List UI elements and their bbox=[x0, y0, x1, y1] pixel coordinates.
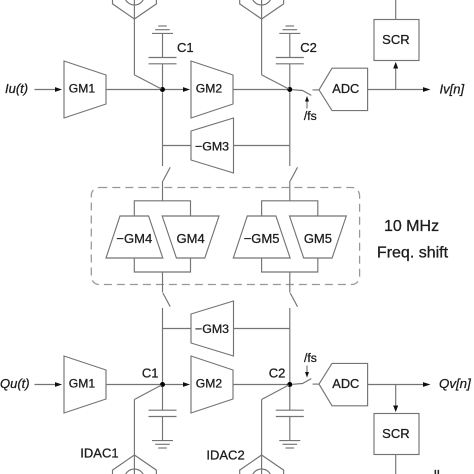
wire node C1 to GM2 with arrow (bottom) bbox=[165, 382, 190, 387]
wire node C1 down (top) bbox=[162, 92, 164, 166]
wire GM5 bar down to switch bbox=[289, 272, 291, 293]
wire GM2 output to node C2 (bottom) bbox=[233, 384, 288, 386]
ADC (bottom) bbox=[319, 363, 368, 405]
wire GM1 output to node C1 (top) bbox=[106, 89, 160, 91]
wire output to SCR with down arrow (bottom) bbox=[393, 385, 398, 413]
svg-text:−GM4: −GM4 bbox=[116, 231, 152, 246]
watermark fragment bottom right bbox=[435, 470, 440, 474]
wire switch to freq-shift box (top right) bbox=[289, 181, 291, 201]
IDAC current source symbol (top left, clipped) bbox=[113, 0, 157, 19]
feedback transconductor -GM3 (bottom) bbox=[191, 301, 234, 356]
svg-text:−GM3: −GM3 bbox=[195, 322, 229, 336]
transconductor GM2 (bottom) bbox=[191, 356, 233, 413]
SCR block (top) bbox=[374, 20, 419, 61]
wire GM2 output to node C2 (top) bbox=[233, 89, 288, 91]
ground above C2 (inverted) bbox=[279, 26, 300, 33]
wire input arrow to GM1 (top) bbox=[35, 87, 63, 92]
wire -GM3 input from node C2 line (top) bbox=[234, 145, 290, 147]
switch blade C2 branch (top) bbox=[290, 167, 297, 181]
IDAC2 current source symbol (bottom, clipped) bbox=[240, 455, 284, 474]
transconductor GM1 (bottom) bbox=[64, 356, 106, 413]
wire bar to GM5 pair inputs (top) bbox=[262, 201, 318, 216]
svg-text:Freq. shift: Freq. shift bbox=[377, 245, 449, 262]
ground above C1 (inverted) bbox=[152, 26, 173, 33]
wire switch down to node C2 (bottom) bbox=[289, 308, 291, 382]
svg-text:C1: C1 bbox=[177, 40, 194, 55]
svg-text:ADC: ADC bbox=[332, 81, 359, 96]
wire GM5 pair outputs to bar (bottom) bbox=[262, 258, 318, 272]
wire switch down to node C1 (bottom) bbox=[162, 308, 164, 382]
transconductor GM5 bbox=[290, 216, 347, 258]
feedback transconductor -GM3 (top) bbox=[191, 118, 234, 173]
svg-text:GM2: GM2 bbox=[196, 377, 223, 391]
ground below C2 (bottom) bbox=[279, 441, 300, 448]
wire -GM3 output to node C1 line (bottom) bbox=[163, 328, 192, 330]
ADC (top) bbox=[319, 68, 368, 110]
switch /fs (bottom) bbox=[293, 379, 320, 385]
svg-text:GM2: GM2 bbox=[196, 82, 223, 96]
svg-text:Qu(t): Qu(t) bbox=[0, 376, 30, 391]
node C2 (top) bbox=[287, 87, 292, 92]
wire ADC output to Iv[n] with arrow bbox=[368, 87, 431, 92]
svg-text:/fs: /fs bbox=[304, 351, 317, 365]
svg-text:10 MHz: 10 MHz bbox=[384, 218, 439, 235]
wire bar to GM4 pair inputs (top) bbox=[134, 201, 190, 216]
svg-text:/fs: /fs bbox=[304, 109, 317, 123]
svg-text:−GM3: −GM3 bbox=[195, 139, 229, 153]
svg-text:C2: C2 bbox=[269, 366, 286, 381]
node C1 (bottom) bbox=[160, 382, 165, 387]
wire SCR to bottom edge bbox=[395, 455, 397, 474]
capacitor C1 (top) bbox=[149, 34, 177, 88]
capacitor C2 (bottom) bbox=[276, 387, 304, 441]
svg-text:IDAC1: IDAC1 bbox=[80, 446, 118, 461]
svg-text:SCR: SCR bbox=[382, 426, 409, 441]
wire node C1 to GM2 with arrow (top) bbox=[165, 87, 190, 92]
svg-text:C2: C2 bbox=[300, 40, 317, 55]
dashed frequency-shift box bbox=[91, 188, 359, 285]
transconductor -GM4 bbox=[106, 216, 163, 258]
wire node C2 down (top) bbox=[289, 92, 291, 166]
wire GM4 pair outputs to bar (bottom) bbox=[134, 258, 190, 272]
node C1 (top) bbox=[160, 87, 165, 92]
svg-text:GM4: GM4 bbox=[177, 231, 205, 246]
label /fs with pointer arrow (bottom) bbox=[304, 351, 317, 378]
switch blade C1 branch (top) bbox=[163, 167, 170, 181]
transconductor GM2 (top) bbox=[191, 61, 233, 118]
svg-text:Qv[n]: Qv[n] bbox=[439, 376, 471, 391]
switch blade C1 branch (bottom) bbox=[163, 293, 170, 307]
wire switch to freq-shift box (top left) bbox=[162, 181, 164, 201]
svg-text:ADC: ADC bbox=[332, 376, 359, 391]
node C2 (bottom) bbox=[287, 382, 292, 387]
wire input arrow to GM1 (bottom) bbox=[35, 382, 63, 387]
wire ADC output to Qv[n] with arrow bbox=[368, 382, 431, 387]
transconductor -GM5 bbox=[233, 216, 290, 258]
switch /fs (top) bbox=[293, 90, 320, 96]
wire GM1 output to node C1 (bottom) bbox=[106, 384, 160, 386]
svg-text:C1: C1 bbox=[142, 366, 159, 381]
svg-text:GM5: GM5 bbox=[304, 231, 332, 246]
IDAC1 current source symbol (bottom, clipped) bbox=[113, 455, 157, 474]
wire GM4 bar down to switch bbox=[162, 272, 164, 293]
SCR block (bottom) bbox=[374, 414, 419, 455]
wire node C2 to IDAC2 (bottom) bbox=[262, 385, 289, 474]
wire node C1 to IDAC1 (bottom) bbox=[134, 385, 161, 474]
svg-text:Iv[n]: Iv[n] bbox=[440, 81, 465, 96]
transconductor GM4 bbox=[162, 216, 219, 258]
capacitor C2 (top) bbox=[276, 34, 304, 88]
IDAC current source symbol (top right, clipped) bbox=[240, 0, 284, 19]
switch blade C2 branch (bottom) bbox=[290, 293, 297, 307]
transconductor GM1 (top) bbox=[64, 61, 106, 118]
wire output to SCR with up arrow (top) bbox=[393, 62, 398, 90]
label /fs with pointer arrow (top) bbox=[304, 96, 317, 123]
wire -GM3 output to node C1 line (top) bbox=[163, 145, 192, 147]
capacitor C1 (bottom) bbox=[149, 387, 177, 441]
svg-text:Iu(t): Iu(t) bbox=[5, 81, 28, 96]
svg-text:GM1: GM1 bbox=[69, 377, 96, 391]
wire SCR to top edge bbox=[395, 0, 397, 20]
svg-text:GM1: GM1 bbox=[69, 82, 96, 96]
svg-text:IDAC2: IDAC2 bbox=[206, 448, 244, 463]
wire IDAC top-left to node C1 bbox=[134, 0, 161, 89]
svg-text:SCR: SCR bbox=[382, 32, 409, 47]
wire -GM3 input from node C2 line (bottom) bbox=[234, 328, 290, 330]
ground below C1 (bottom) bbox=[152, 441, 173, 448]
svg-text:−GM5: −GM5 bbox=[244, 231, 280, 246]
wire IDAC top-right to node C2 bbox=[262, 0, 289, 89]
